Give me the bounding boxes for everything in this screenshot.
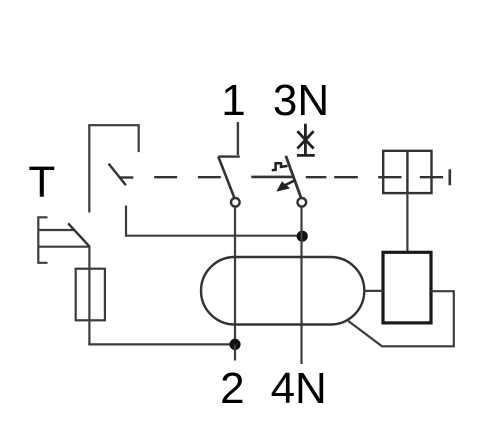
neutral pole last-open symbol X (297, 131, 313, 148)
mechanical linkage dashed bar (154, 176, 443, 178)
trip relay box divider (406, 151, 408, 193)
wire: test button to resistor (88, 246, 90, 345)
pole 1 moving blade (218, 157, 234, 199)
junction dot on neutral wire (297, 231, 308, 242)
wire: test loop upper (open contact upper terminal) (89, 125, 138, 212)
svg-text:3N: 3N (273, 76, 329, 125)
toroid current transformer (201, 257, 364, 325)
wire: toroid secondary lower loop (348, 291, 454, 346)
pole 1 contact circle (231, 198, 240, 207)
pole 3N moving blade (286, 156, 301, 198)
svg-text:1: 1 (221, 76, 245, 125)
trip relay box (383, 151, 431, 193)
neutral pole last-open symbol base bar (297, 154, 315, 157)
test-interlock auxiliary contact blade (109, 164, 126, 186)
pole 3N fixed contact bar (251, 176, 293, 179)
wire: toroid secondary to coil left (364, 290, 383, 292)
pole 3N release step symbol (272, 163, 288, 170)
svg-text:4N: 4N (271, 364, 327, 413)
neutral pole last-open symbol stem (304, 124, 307, 156)
test button lower prong (38, 246, 89, 248)
mechanical linkage end tick (448, 169, 451, 185)
test resistor (76, 269, 105, 321)
test-interlock auxiliary contact fixed bar (119, 176, 133, 178)
wire: resistor bottom to junction under pole 1 (88, 343, 235, 345)
test button upper prong (38, 229, 75, 231)
wire: relay box to trip coil (406, 193, 408, 252)
wire: pole 3N through toroid to terminal 4N (300, 207, 302, 364)
test button T actuator bracket (38, 217, 47, 262)
pole 3N trip arrow line (286, 180, 296, 185)
junction dot terminal 2 (229, 339, 240, 350)
test button moving blade (68, 223, 89, 246)
terminal 2 stub (234, 344, 236, 360)
wire: auxiliary contact down and right to neutral node (126, 206, 302, 236)
trip coil (383, 252, 431, 323)
svg-text:2: 2 (220, 364, 244, 413)
wire: pole 1 through toroid to junction (234, 207, 236, 345)
svg-text:T: T (28, 158, 55, 207)
pole 3N contact circle (298, 198, 307, 207)
pole 1 hinge bar (218, 155, 240, 157)
pole 3N trip arrow head (276, 181, 290, 191)
pole 1 terminal stub (237, 122, 239, 155)
